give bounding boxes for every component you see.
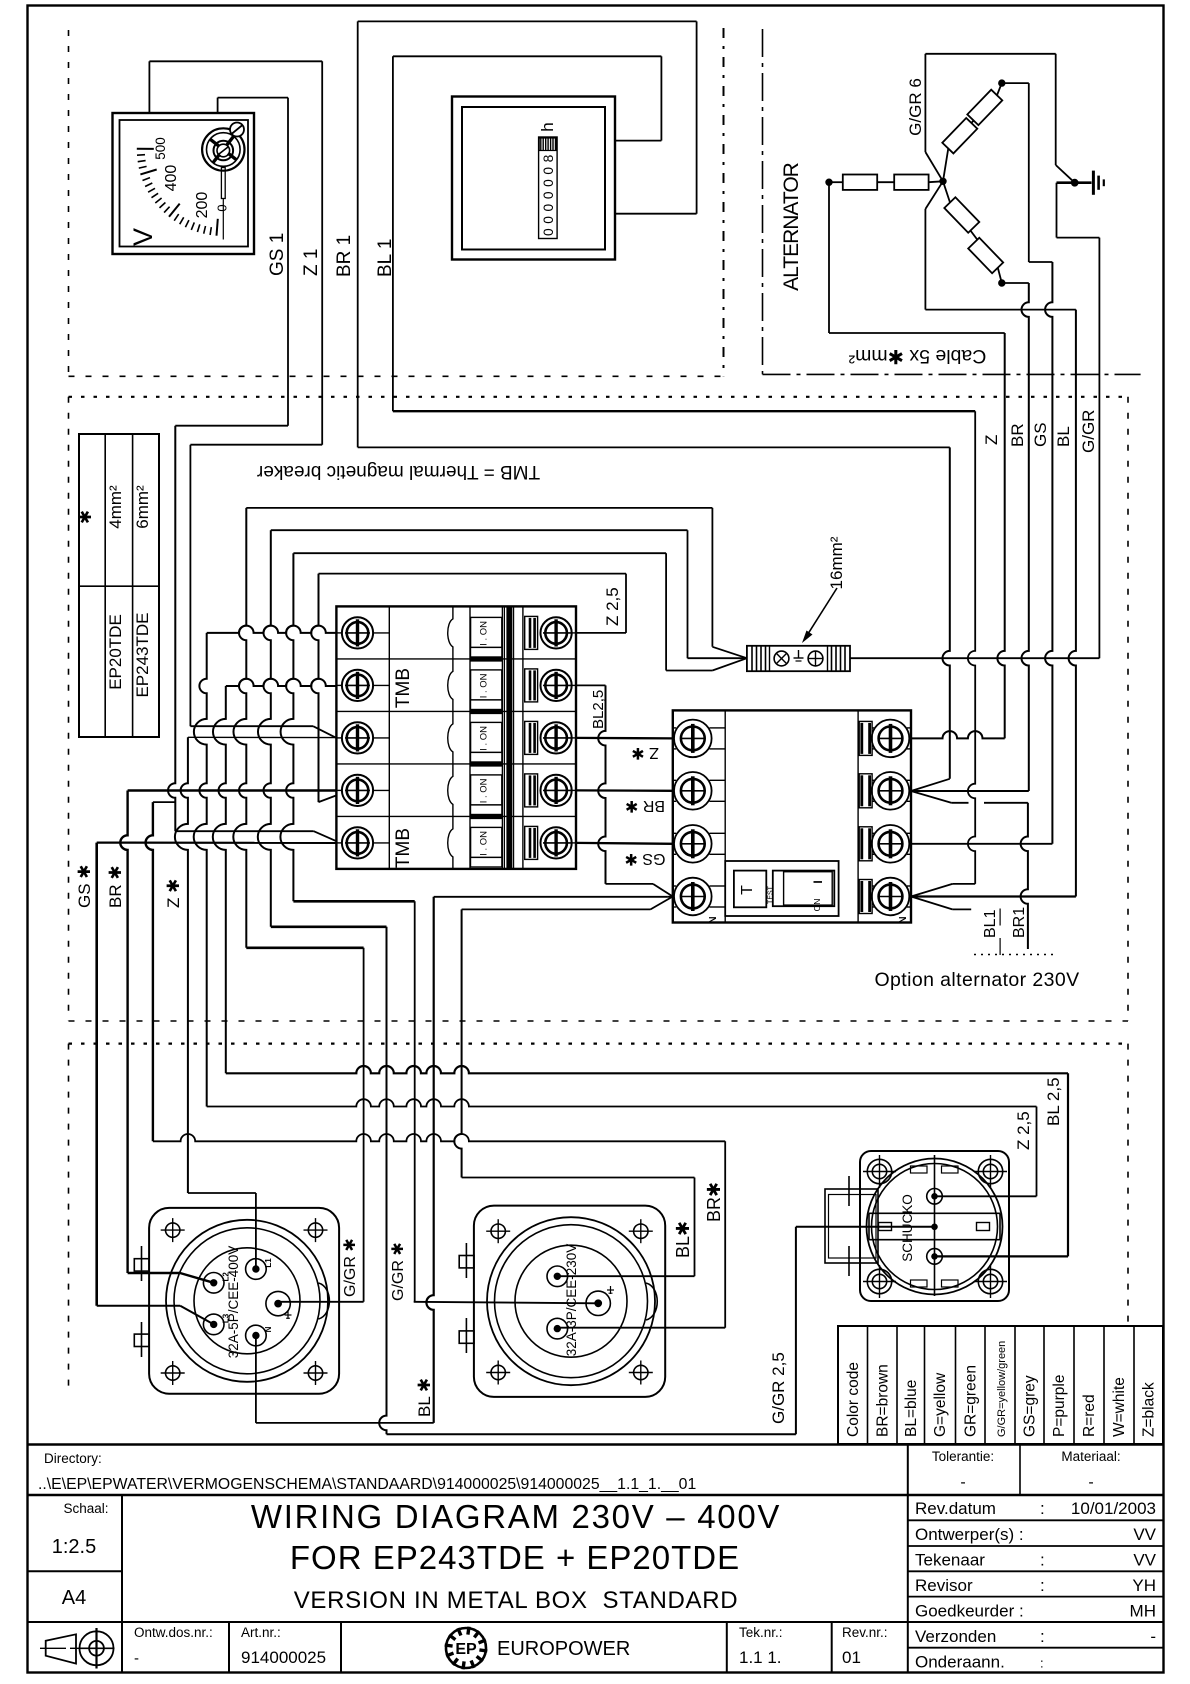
wire BL1 horizontal y=411 to right: [393, 410, 975, 412]
earth block circle-cross terminal: [808, 651, 823, 666]
color code table: [838, 1326, 1163, 1444]
wire Z in vertical x=190 down to TMB row3: [189, 445, 191, 727]
svg-text:BR ✱: BR ✱: [625, 797, 665, 814]
svg-text:4mm²: 4mm²: [106, 485, 125, 529]
CEE 400V mounting tab lower: [134, 1334, 149, 1346]
wire GS1 vertical x=288: [287, 98, 289, 426]
TMB breaker row 1 right terminal: [541, 617, 572, 648]
svg-text:-: -: [960, 1474, 965, 1491]
svg-text:Verzonden: Verzonden: [915, 1627, 996, 1646]
svg-text::: :: [1040, 1627, 1045, 1646]
wire BR1 counter stub vertical x=697: [696, 21, 698, 213]
Schuko center band: [869, 1212, 1000, 1214]
Schuko earth clip left: [879, 1223, 892, 1231]
svg-text:BL 2,5: BL 2,5: [1044, 1077, 1063, 1126]
RCD rocker switch: [773, 871, 835, 907]
panel boundary dash-dot horizontal y=376 instruments: [69, 375, 725, 377]
svg-text:TMB = Thermal magnetic breaker: TMB = Thermal magnetic breaker: [256, 461, 540, 482]
wire TMB row2 feed corner x=226: [213, 686, 226, 1073]
wire fuse feed diag W3: [712, 658, 747, 670]
CEE 230V socket plate: [474, 1206, 665, 1397]
CEE 400V plate screw: [308, 1223, 322, 1237]
hour counter digit window: [539, 137, 558, 239]
RCD test button: [734, 871, 766, 908]
svg-text:32A-3P/CEE-230V: 32A-3P/CEE-230V: [564, 1244, 579, 1357]
Schuko lower pin: [927, 1249, 943, 1265]
svg-text:Rev.nr.:: Rev.nr.:: [842, 1625, 888, 1640]
svg-text:GS 1: GS 1: [267, 233, 288, 276]
bottom band cells: [121, 1622, 123, 1673]
svg-text:EP: EP: [455, 1641, 477, 1658]
wire hook diagonal into TMB row4: [319, 795, 337, 802]
svg-text:I . ON: I . ON: [479, 621, 490, 646]
wire G/GR* vertical x=386 to schuko earth (hops): [379, 927, 386, 1435]
svg-text:BR1: BR1: [1011, 907, 1028, 938]
alternator node bottom (BR): [999, 280, 1005, 286]
wire BR1 counter stub horizontal y=214: [615, 213, 697, 215]
wire TMB row3 out horizontal y=737 (Z*): [188, 736, 337, 738]
svg-text:Onderaann.: Onderaann.: [915, 1653, 1005, 1672]
CEE 400V plate screw: [308, 1366, 322, 1380]
metal box dotted horizontal y=397: [69, 396, 1128, 398]
wire GS1 top horizontal y=98: [218, 97, 288, 99]
RCD row 2 right clip: [859, 774, 872, 808]
svg-text:N: N: [898, 916, 909, 923]
CEE 230V plate screw: [491, 1224, 505, 1238]
svg-text:L3: L3: [222, 1313, 231, 1323]
svg-text:YH: YH: [1132, 1576, 1156, 1595]
svg-text:L1: L1: [264, 1258, 273, 1268]
ground node dot: [1071, 179, 1078, 186]
svg-text:G/GR=yellow/green: G/GR=yellow/green: [996, 1341, 1008, 1437]
wire x=462 down to CEE230 N loop (hop wire C): [454, 909, 461, 1177]
svg-text:G/GR 2,5: G/GR 2,5: [769, 1352, 788, 1424]
TMB breaker row 4 switch I.ON: [471, 775, 502, 805]
TMB breaker row 5 right clip: [525, 826, 538, 859]
RCD row 1 left terminal: [673, 727, 676, 729]
hour counter P1 outer box: [452, 97, 615, 260]
wire ground node left stem: [1057, 181, 1075, 184]
option dashed leader BR1: [1027, 918, 1029, 949]
CEE 400V pin N: [246, 1325, 267, 1346]
svg-text:WIRING DIAGRAM 230V – 400V: WIRING DIAGRAM 230V – 400V: [251, 1498, 781, 1535]
wire fuse feed W2 vertical x=688: [687, 530, 689, 658]
Schuko notches top: [911, 1166, 928, 1173]
wire TMB row5 in diagonal: [314, 831, 337, 841]
svg-text:G/GR: G/GR: [1079, 410, 1098, 453]
wire TMB row3 to RCD row1 y=738: [576, 737, 673, 740]
wire RCD N lower horizontal y=909: [462, 908, 651, 910]
TMB breaker row 3 right clip: [525, 721, 538, 754]
wire RCD row3 right to GS drop: [911, 843, 1052, 845]
wire BR1 diagonal into RCD row2 terminal: [911, 779, 950, 791]
wire BR1 horizontal y=447 to right: [358, 446, 950, 448]
metal box dashed vertical left x=68: [68, 397, 70, 1021]
svg-text:Color code: Color code: [845, 1362, 862, 1437]
CEE 400V plate screw: [166, 1366, 180, 1380]
wire BL2,5 into Schuko lower pin: [935, 1255, 1069, 1257]
wire GS from top node right y=83: [1002, 82, 1029, 84]
wire Z2.5 hook vertical x=626: [625, 574, 627, 633]
wire BR* vertical x=725 down: [724, 1141, 726, 1327]
voltmeter scale ticks: [217, 219, 218, 236]
svg-text:Ontwerper(s) :: Ontwerper(s) :: [915, 1525, 1024, 1544]
wire BL1 loop top y=56: [393, 55, 662, 57]
Schuko mounting tab: [825, 1189, 878, 1263]
svg-text:Z ✱: Z ✱: [164, 879, 183, 908]
svg-text:SCHUCKO: SCHUCKO: [900, 1194, 915, 1262]
CEE 230V pin N: [547, 1318, 568, 1339]
wire fuse feed W3 bottom y=671: [666, 670, 712, 672]
ground symbol bars: [1092, 171, 1095, 195]
wire TMB row1 horizontal y=633: [207, 626, 337, 633]
svg-text:ON: ON: [812, 899, 822, 912]
socket panel dashed vertical left x=68: [68, 1044, 70, 1388]
TMB breaker row 1 switch I.ON: [471, 617, 502, 647]
wire BL1 diagonal into RCD N terminal: [911, 884, 952, 897]
CEE 230V pin L: [547, 1266, 568, 1287]
CEE 400V keyway bulge: [319, 1283, 330, 1319]
Schuko socket plate: [860, 1151, 1009, 1301]
alternator winding W3b (lower right): [968, 238, 1003, 273]
CEE 230V mounting tab lower: [459, 1331, 474, 1343]
alternator node left (Z): [826, 179, 832, 185]
svg-text:GS=grey: GS=grey: [1022, 1375, 1039, 1437]
svg-text:Z 2,5: Z 2,5: [1014, 1111, 1033, 1150]
CEE 230V earth pin: [586, 1291, 610, 1315]
wire voltmeter stub 1 up: [148, 61, 150, 113]
wire G/GR jog right y=238: [1057, 237, 1100, 239]
TMB breaker row 3 left terminal: [336, 737, 342, 739]
CEE 230V plate screw: [634, 1224, 648, 1238]
wire Schuko BL2,5 horizontal y=1073 (wire A): [226, 1066, 1068, 1073]
EP type table box: [79, 434, 159, 737]
wire GS1 jog left y=426: [175, 425, 288, 427]
svg-text:GS ✱: GS ✱: [75, 864, 94, 908]
svg-text:TMB: TMB: [393, 668, 414, 708]
TMB breaker row 3 switch I.ON: [471, 722, 502, 752]
title block outline: [28, 1443, 1164, 1445]
svg-text:-: -: [134, 1650, 139, 1667]
wire CEE400 N horizontal y=1423: [256, 1422, 434, 1424]
svg-text::: :: [1040, 1551, 1045, 1570]
wire Schuko Z2,5 horizontal y=1106 (wire B): [207, 1099, 1037, 1106]
svg-text:Tolerantie:: Tolerantie:: [932, 1449, 994, 1464]
CEE 400V socket circles: [166, 1220, 328, 1382]
svg-text:T: T: [739, 885, 756, 895]
wire Z2,5 vertical x=1037 down: [1036, 1107, 1038, 1197]
svg-text:GR=green: GR=green: [962, 1365, 979, 1437]
CEE 230V socket circles: [487, 1217, 655, 1385]
svg-text:BL✱: BL✱: [673, 1221, 693, 1258]
wire BL* into CEE230 top pin y=1276: [557, 1275, 694, 1277]
wire GS* diagonal into L3 pin: [180, 1306, 214, 1325]
TMB breaker row 4 right clip: [525, 774, 538, 807]
wire N vertical x=434 down to CEE400 N (hop earth line): [426, 897, 433, 1423]
CEE 400V mounting tab upper: [134, 1259, 149, 1271]
TMB breaker row 4 right terminal: [541, 775, 572, 806]
wire BR1 vertical x=950 down to RCD row2 (hop earth wire): [943, 447, 950, 778]
wire G/GR down segment x=1056: [1055, 54, 1057, 165]
svg-text:400: 400: [163, 165, 180, 192]
svg-text:Art.nr.:: Art.nr.:: [241, 1625, 281, 1640]
alternator winding connection lines: [829, 181, 843, 183]
panel boundary dash-dot horizontal y=374 alternator: [763, 373, 1141, 375]
TMB inner column lines: [388, 606, 390, 869]
Schuko plate screw: [867, 1269, 891, 1293]
wire Z* down into L1 pin: [255, 1193, 257, 1269]
wire BL2,5 vertical x=1068 down: [1067, 1073, 1069, 1256]
wire BL* vertical x=694 down: [694, 1178, 696, 1277]
RCD row 3 right clip: [859, 827, 872, 861]
svg-text:G/GR ✱: G/GR ✱: [342, 1238, 359, 1297]
metal box dashed horizontal y=1021: [69, 1020, 1129, 1022]
wire BL1 horizontal into RCD N y=884: [952, 883, 975, 885]
wire RCD row1 right to Z drop: [911, 731, 1005, 738]
svg-text:Z ✱: Z ✱: [631, 744, 659, 761]
wire BR1 vertical x=358: [357, 21, 359, 447]
wire GS branch vertical x=153 down (hop row5 wire): [146, 802, 153, 1141]
svg-text:-: -: [1088, 1474, 1093, 1491]
CEE 400V earth mark: [287, 1311, 289, 1319]
wire earth CEE400 segment y=1304: [278, 1301, 364, 1303]
wire Schuko earth vertical x=796: [795, 1227, 797, 1435]
wire TMB row5 to RCD row3 y=843: [576, 842, 673, 845]
option dotted horizontal: [974, 954, 1054, 956]
wire GS vertical x=1029 upper: [1028, 83, 1030, 262]
svg-text:Option alternator 230V: Option alternator 230V: [874, 969, 1079, 991]
wire BL horizontal y=310: [925, 309, 1076, 311]
svg-text:Materiaal:: Materiaal:: [1061, 1449, 1120, 1464]
wire Z from left node down x=829: [828, 182, 830, 333]
wire GS* vertical x=97 down to CEE400 L3: [95, 843, 98, 1306]
svg-text:Goedkeurder :: Goedkeurder :: [915, 1602, 1024, 1621]
RCD row 4 left terminal: [673, 885, 676, 887]
wire fuse feed W3 horizontal y=553: [293, 552, 666, 554]
wire Z horizontal y=333: [829, 332, 1005, 334]
wire BL segment x=925 down: [924, 209, 926, 310]
RCD earth leakage breaker outline: [673, 710, 911, 922]
earth block right hatch: [831, 646, 833, 671]
wire BR* vertical x=128 down to CEE400 L2 (hop row5): [120, 791, 127, 1274]
TMB breaker row 2 right clip: [525, 669, 538, 702]
wire alternator neutral diag down-left: [925, 181, 943, 209]
RCD row 3 right terminal: [872, 832, 874, 834]
svg-text:N: N: [264, 1326, 273, 1332]
hour counter tenth digit hatch: [539, 138, 556, 151]
wire G/GR top horizontal y=54: [925, 53, 1055, 55]
wire Schuko earth horizontal into pin y=1227: [796, 1226, 935, 1228]
earth terminal block 16mm2 body: [747, 646, 850, 671]
wire GS jog right y=262: [1029, 261, 1053, 263]
CEE 230V earth mark: [610, 1286, 612, 1294]
svg-text:Tek.nr.:: Tek.nr.:: [739, 1625, 783, 1640]
RCD row 2 right terminal: [872, 779, 874, 781]
svg-text:16mm²: 16mm²: [827, 536, 846, 589]
earth block circle-X terminal: [774, 651, 789, 666]
svg-text:FOR EP243TDE + EP20TDE: FOR EP243TDE + EP20TDE: [290, 1539, 740, 1576]
CEE 230V mounting tab upper: [459, 1256, 474, 1268]
wire RCD row2 lower diagonal: [911, 791, 951, 803]
wire RCD row4 lower diagonal: [911, 897, 952, 910]
hour counter P1 inner box: [462, 107, 605, 250]
svg-text:200: 200: [194, 192, 211, 219]
TMB row divider lines: [336, 658, 576, 660]
svg-text:Cable 5x ✱mm²: Cable 5x ✱mm²: [848, 345, 986, 367]
wire earth CEE230 segment y=1304: [414, 1302, 599, 1304]
svg-text:h: h: [538, 122, 557, 131]
wire Z vertical x=1005 down to RCD (hop earth wire): [997, 333, 1004, 738]
wire fuse feed W2 into apex: [688, 657, 747, 659]
voltmeter M1 inner box: [120, 120, 249, 247]
svg-text:GS: GS: [1031, 422, 1050, 447]
panel boundary dotted vertical x=724: [723, 28, 725, 376]
wire TMB row2 horizontal y=686: [226, 679, 337, 686]
svg-text:01: 01: [842, 1648, 861, 1667]
wire GS branch link y=802: [153, 801, 175, 803]
RCD row 1 right clip: [859, 721, 872, 755]
Schuko notches bottom: [911, 1280, 928, 1287]
wire fuse feed W2 vertical x=271: [258, 530, 271, 927]
socket panel dashed vertical right x=1128: [1127, 1044, 1129, 1324]
wire Z1 top horizontal y=61: [149, 60, 322, 62]
wire RCD row2 right horizontal to BR drop: [911, 790, 1029, 792]
svg-text:BR 1: BR 1: [334, 235, 355, 277]
svg-text:BL 1: BL 1: [375, 239, 396, 277]
svg-text:VERSION IN METAL BOX STANDARD: VERSION IN METAL BOX STANDARD: [294, 1587, 739, 1614]
Schuko plate screw: [978, 1159, 1002, 1183]
panel boundary dash-dot vertical left x=68 (instrument panel): [68, 30, 70, 376]
svg-text:V: V: [128, 228, 158, 246]
TMB trip linkage wavy line: [448, 606, 453, 869]
svg-text:BL1: BL1: [982, 909, 999, 938]
RCD row 4 right clip: [859, 880, 872, 914]
RCD switch assembly box: [725, 861, 838, 916]
svg-text:BR✱: BR✱: [704, 1182, 724, 1222]
voltmeter M1 outer box: [113, 113, 255, 254]
svg-text:I . ON: I . ON: [479, 778, 490, 803]
CEE 400V plate screw: [166, 1223, 180, 1237]
svg-text:BL: BL: [1054, 426, 1073, 447]
wire TMB row5 out horizontal y=843 (GS*): [97, 841, 337, 844]
Schuko center line vertical: [934, 1155, 936, 1296]
earth block left hatch: [751, 646, 753, 671]
wire W3 step horizontal y=901: [293, 900, 414, 903]
svg-text:P=purple: P=purple: [1051, 1375, 1068, 1437]
wire hook vertical x=318 down to TMB row4 (hops rows1-2): [311, 574, 318, 803]
wire BR1 stub horizontal y=803 (with gap): [951, 802, 968, 804]
wire BR* diagonal into L2 pin: [180, 1273, 214, 1283]
CEE 400V earth pin: [266, 1291, 290, 1315]
CEE 230V keyway bulge: [646, 1283, 657, 1320]
wire fuse feed W3 vertical x=293: [280, 553, 293, 901]
wire TMB row1 feed corner x=207: [194, 633, 207, 1107]
svg-text:I . ON: I . ON: [479, 673, 490, 698]
wire TMB row4 to RCD row2 y=791: [576, 789, 673, 792]
svg-text:VV: VV: [1133, 1551, 1156, 1570]
wire BL* horizontal y=1178: [462, 1177, 695, 1179]
svg-text:TMB: TMB: [393, 828, 414, 868]
svg-text:I . ON: I . ON: [479, 726, 490, 751]
wire BR vertical x=1029 down to RCD (hop over BL wire): [1022, 283, 1029, 791]
wire BR* horizontal y=1273: [128, 1272, 180, 1274]
svg-text:500: 500: [153, 137, 168, 160]
wire BL1 counter stub vertical x=661: [660, 56, 662, 140]
alternator node top (GS): [999, 80, 1005, 86]
TMB breaker row 1 right clip: [525, 616, 538, 649]
alternator winding W2b (upper right): [967, 90, 1002, 125]
wire TMB row3 in diagonal: [313, 726, 336, 738]
wire BL2,5 diagonal into RCD N: [653, 884, 673, 897]
earth block middle earth mark: [798, 650, 800, 658]
TMB breaker row 2 left terminal: [336, 684, 342, 686]
wire BL1 vertical x=393: [392, 56, 394, 411]
wire TMB row3 in horizontal y=726: [190, 725, 313, 727]
svg-text:MH: MH: [1130, 1602, 1156, 1621]
TMB breaker block outline: [336, 606, 576, 869]
wire G/GR up segment x=925: [924, 54, 926, 152]
CEE 400V socket plate: [149, 1208, 339, 1394]
svg-text:Z 1: Z 1: [301, 249, 322, 276]
wire fuse feed W2 horizontal y=530: [271, 529, 688, 531]
option dashed leader BL1: [999, 909, 1001, 926]
RCD row 4 right terminal: [872, 885, 874, 887]
wire TMB row5 in horizontal y=831: [175, 830, 313, 832]
svg-text:G=yellow: G=yellow: [932, 1372, 949, 1437]
svg-text:G/GR ✱: G/GR ✱: [390, 1242, 407, 1301]
svg-text:Rev.datum: Rev.datum: [915, 1499, 996, 1518]
wire CEE400 N down from pin: [255, 1336, 257, 1423]
RCD row 2 left terminal: [673, 779, 676, 781]
svg-text:ALTERNATOR: ALTERNATOR: [780, 162, 803, 291]
svg-text:..\E\EP\EPWATER\VERMOGENSCHEMA: ..\E\EP\EPWATER\VERMOGENSCHEMA\STANDAARD…: [38, 1476, 696, 1493]
wire Z2.5 hook horizontal y=574: [319, 573, 627, 575]
svg-text:1:2.5: 1:2.5: [52, 1536, 96, 1558]
svg-text:914000025: 914000025: [241, 1648, 326, 1667]
svg-text::: :: [1040, 1576, 1045, 1595]
wire TMB row2 right to BL2,5 drop: [576, 684, 606, 686]
wire earth block output y=658 to G/GR: [850, 657, 1099, 659]
wire fuse feed W3 vertical x=666: [665, 553, 667, 670]
wire Schuko earth bottom horizontal y=1434: [387, 1433, 796, 1435]
wire Z jog left y=445: [190, 444, 322, 446]
svg-text:Directory:: Directory:: [44, 1451, 102, 1466]
wire BR1 stub vertical x=1028 down (hops): [1021, 803, 1028, 949]
wire BR* into CEE230 lower pin y=1328: [557, 1327, 725, 1329]
svg-text:I . ON: I . ON: [479, 831, 490, 856]
TMB breaker row 5 left terminal: [336, 842, 342, 844]
projection symbol circle view: [80, 1631, 114, 1665]
wire BL vertical x=1076 down to RCD (hop earth wire): [1069, 310, 1076, 897]
panel boundary dash-dot vertical x=762 alternator: [762, 29, 764, 374]
svg-text:✱: ✱: [76, 510, 95, 524]
wire alternator neutral to ground: diag up-left: [925, 152, 943, 181]
RCD row 1 right terminal: [872, 727, 874, 729]
svg-text::: :: [1040, 1499, 1045, 1518]
wire TMB row4 out horizontal y=790 (BR*): [128, 789, 337, 792]
svg-text:BR: BR: [1008, 423, 1027, 447]
svg-text:-: -: [1150, 1627, 1156, 1646]
CEE 400V pin L2: [203, 1273, 224, 1294]
wire G/GR* vertical x=364 to CEE400 earth: [363, 948, 365, 1302]
ground symbol stem: [1075, 181, 1092, 184]
TMB breaker row 3 right terminal: [541, 722, 572, 753]
svg-text:Tekenaar: Tekenaar: [915, 1551, 985, 1570]
wire G/GR vertical x=1099 down to earth block: [1098, 238, 1100, 659]
svg-text:N: N: [708, 916, 719, 923]
europower logo: [446, 1628, 486, 1668]
svg-text:L2: L2: [222, 1272, 231, 1282]
